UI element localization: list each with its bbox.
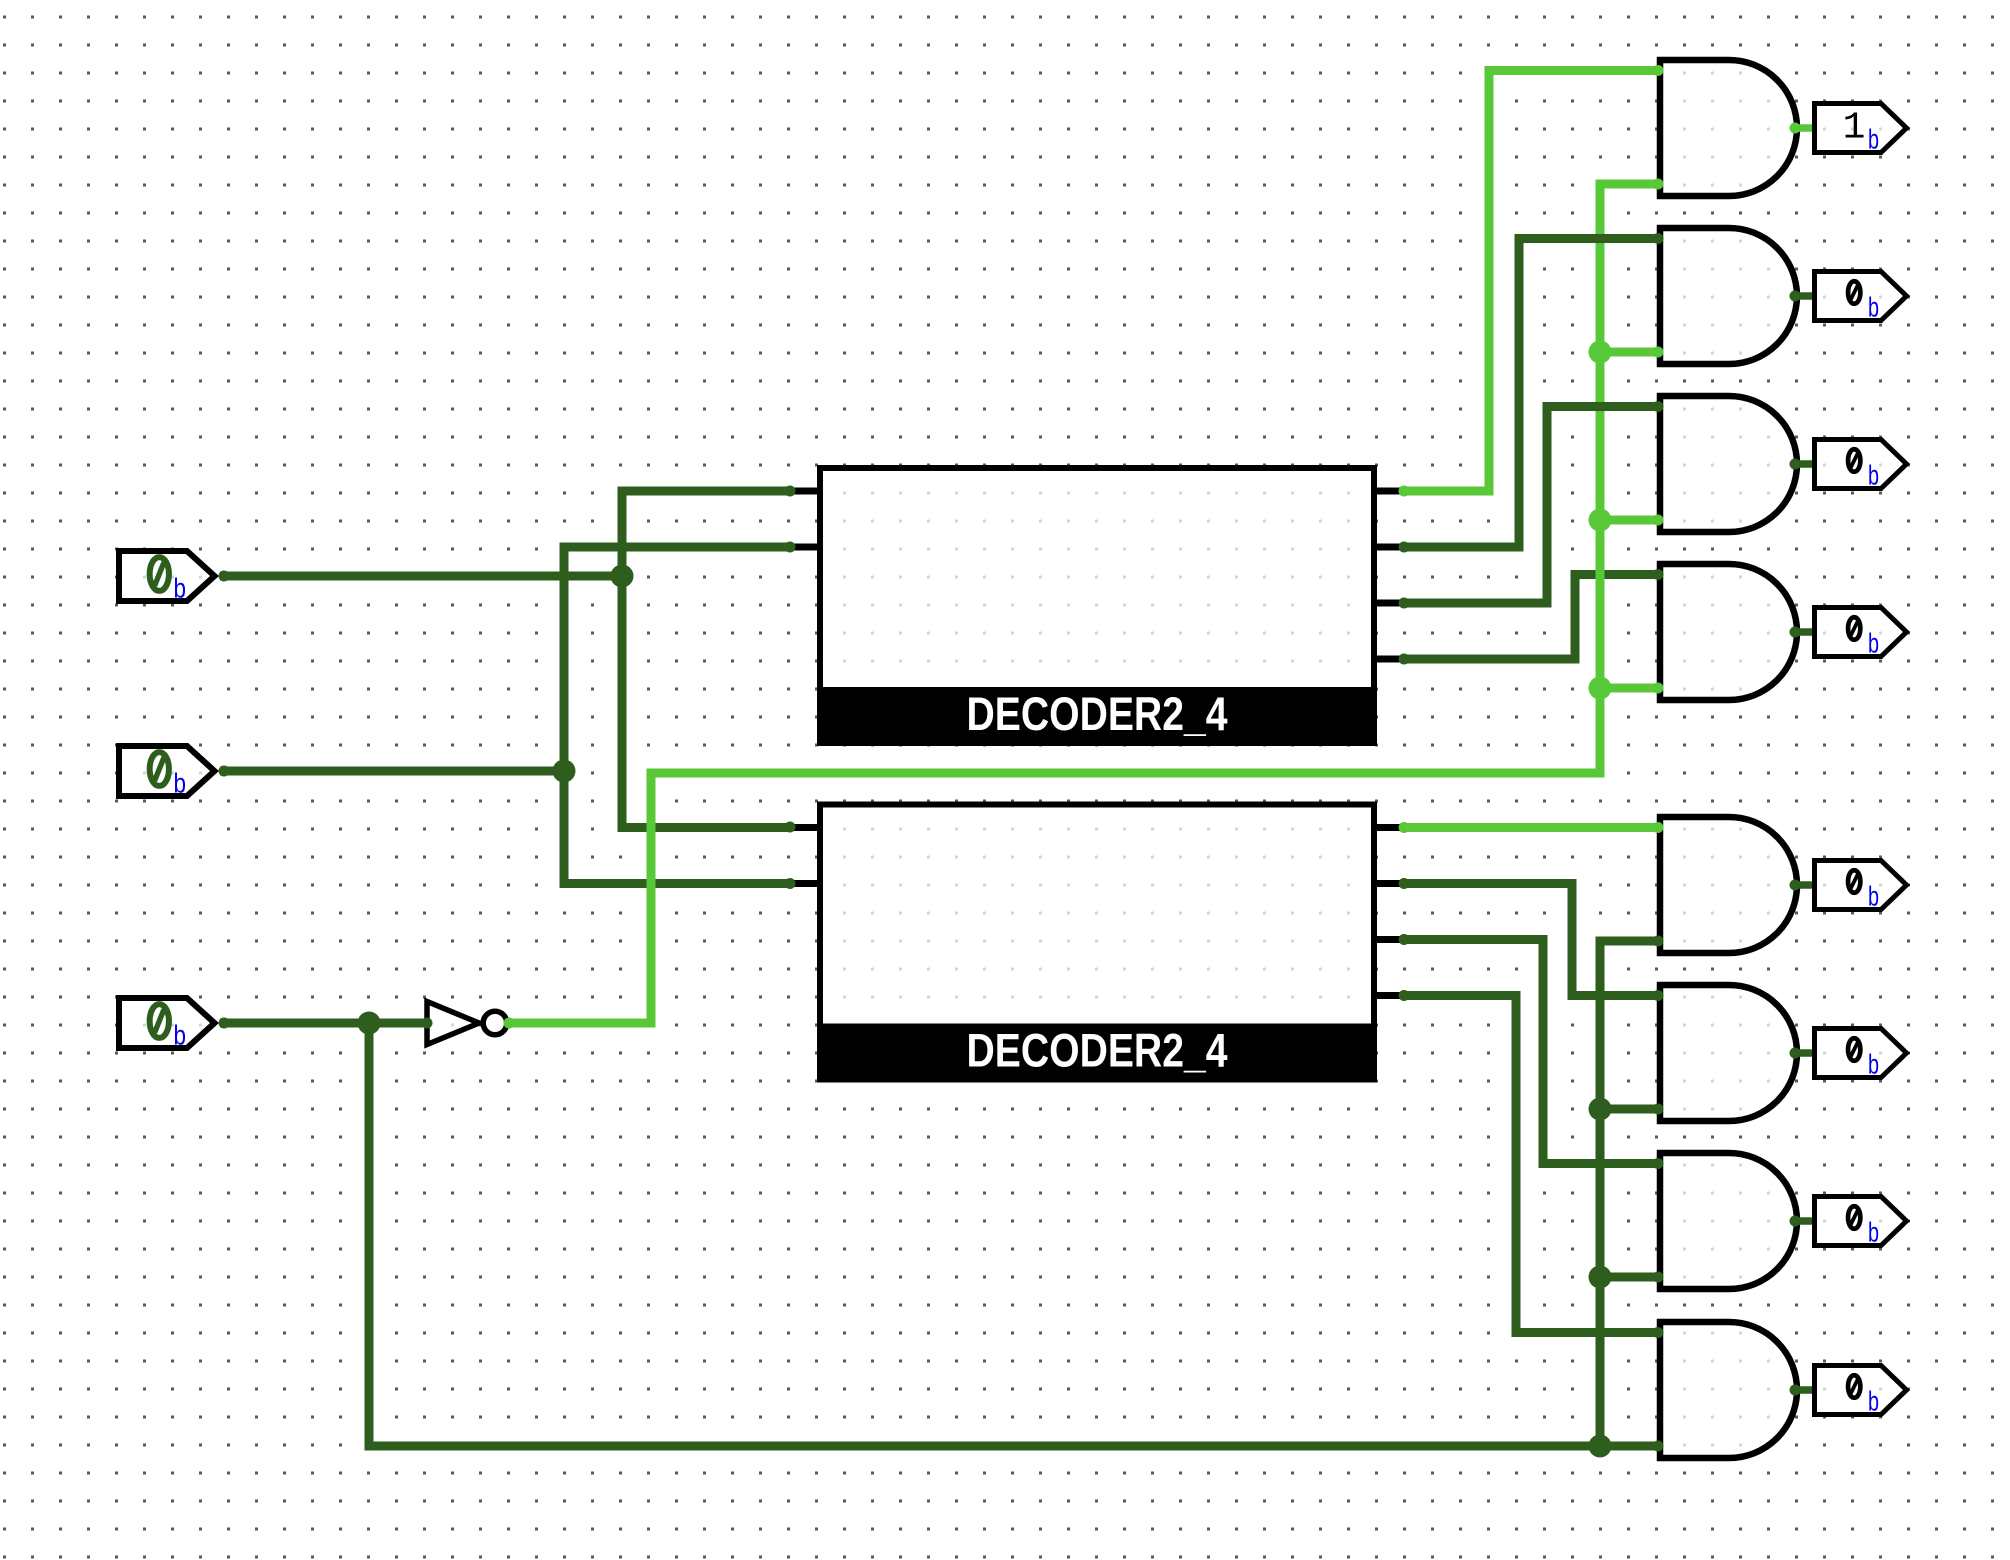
output pin OUT6 value 0b [1815,1197,1907,1248]
wire: A2 stub to gate G6 lower input [1600,1105,1658,1114]
output pin OUT4 value 0b [1815,861,1907,912]
wire: U2 output O2 to gate G7 upper input [1404,940,1658,1164]
AND gate G7 [1660,1153,1797,1289]
node: NOT gate U3 output connection dot [504,1018,515,1029]
output pin OUT5 value 0b [1815,1029,1907,1080]
wire: enable stub to gate G3 lower input [1600,516,1658,525]
wire: gate G6 output stub [1797,1049,1814,1057]
svg-text:DECODER2_4: DECODER2_4 [967,687,1228,740]
node: G8 input 2 connection dot [1653,1441,1664,1452]
svg-text:b: b [1868,292,1879,323]
AND gate G1 [1660,60,1797,196]
svg-text:b: b [1868,124,1879,155]
node: U2 pin A1 connection dot [785,878,796,889]
node: junction A2 split to NOT gate [358,1012,381,1035]
AND gate G3 [1660,396,1797,532]
node: NOT gate U3 input connection dot [422,1018,433,1029]
output pin OUT1 value 0b [1815,272,1907,323]
wire: enable stub to gate G2 lower input [1600,348,1658,357]
wire: A2 stub to gate G7 lower input [1600,1273,1658,1282]
node: U1 pin O0 connection dot [1399,486,1410,497]
node: G3 input 2 connection dot [1653,515,1664,526]
wire: gate G2 output stub [1797,292,1814,300]
node: junction enable column at G3 [1589,509,1612,532]
node: junction A2 column at G7 [1589,1266,1612,1289]
svg-text:DECODER2_4: DECODER2_4 [967,1024,1228,1077]
svg-text:b: b [174,573,187,604]
node: junction A0 bus [611,565,634,588]
wire: U1 output O1 to gate G2 upper input [1404,239,1658,548]
node: G5 input 2 connection dot [1653,936,1664,947]
wire: U1 output O3 to gate G4 upper input [1404,575,1658,660]
wire: gate G5 output stub [1797,881,1814,889]
node: G3 output connection dot [1790,459,1801,470]
node: G4 output connection dot [1790,627,1801,638]
node: U2 pin O3 connection dot [1399,990,1410,1001]
wire: enable stub to gate G4 lower input [1600,684,1658,693]
input pin IN A0 value 0b [119,551,215,604]
svg-text:b: b [1868,881,1879,912]
output pin OUT0 value 1b [1815,104,1907,155]
wire: A2 column up to gate G5 lower input [1600,941,1658,1446]
wire: input A0 pin to junction [220,572,622,581]
AND gate G5 [1660,817,1797,953]
input pin IN A1 value 0b [119,746,215,799]
node: junction A2 column at G6 [1589,1098,1612,1121]
svg-text:1: 1 [1843,107,1866,150]
node: G4 input 1 connection dot [1653,569,1664,580]
output pin OUT2 value 0b [1815,440,1907,491]
svg-text:b: b [1868,460,1879,491]
wire: U1 output O2 to gate G3 upper input [1404,407,1658,604]
output pin OUT7 value 0b [1815,1366,1907,1417]
node: G2 input 1 connection dot [1653,233,1664,244]
node: input A2 pin tip connection dot [219,1018,230,1029]
wire: NOT gate output up and right, enable column for gates G1-G4 [509,184,1658,1023]
node: G3 input 1 connection dot [1653,401,1664,412]
node: input A0 pin tip connection dot [219,571,230,582]
node: G7 input 1 connection dot [1653,1158,1664,1169]
node: G5 output connection dot [1790,880,1801,891]
node: G6 input 2 connection dot [1653,1104,1664,1115]
node: U2 pin A0 connection dot [785,822,796,833]
node: G6 input 1 connection dot [1653,990,1664,1001]
node: junction enable column at G2 [1589,341,1612,364]
wire: gate G1 output stub [1797,124,1814,132]
node: G1 input 1 connection dot [1653,65,1664,76]
node: G8 output connection dot [1790,1385,1801,1396]
wire: U2 output O0 to gate G5 upper input [1404,823,1658,832]
node: G7 output connection dot [1790,1216,1801,1227]
node: U1 pin A1 connection dot [785,542,796,553]
wire: gate G8 output stub [1797,1386,1814,1394]
node: G1 output connection dot [1790,123,1801,134]
AND gate G2 [1660,228,1797,364]
AND gate G4 [1660,564,1797,700]
node: junction A2 column at G8 [1589,1435,1612,1458]
node: G5 input 1 connection dot [1653,822,1664,833]
wire: gate G4 output stub [1797,628,1814,636]
svg-text:b: b [1868,1049,1879,1080]
wire: U2 output O3 to gate G8 upper input [1404,996,1658,1333]
svg-text:b: b [1868,1217,1879,1248]
AND gate G6 [1660,985,1797,1121]
output pin OUT3 value 0b [1815,608,1907,659]
wire: U1 output O0 to gate G1 upper input [1404,71,1658,492]
wire: crossing segment O2-G3 over enable column [1547,402,1658,411]
node: U2 pin O0 connection dot [1399,822,1410,833]
node: G7 input 2 connection dot [1653,1272,1664,1283]
node: junction A1 bus [553,760,576,783]
AND gate G8 [1660,1322,1797,1458]
node: U1 pin O1 connection dot [1399,542,1410,553]
wire: A0 vertical bus to decoder U1 pin A0 and decoder U2 pin A0 [622,491,790,828]
node: G1 input 2 connection dot [1653,179,1664,190]
wire: crossing segment O1-G2 over enable column [1519,234,1658,243]
node: U2 pin O1 connection dot [1399,878,1410,889]
node: G2 input 2 connection dot [1653,347,1664,358]
node: U1 pin O2 connection dot [1399,598,1410,609]
input pin IN A2 value 0b [119,998,215,1051]
node: U1 pin A0 connection dot [785,486,796,497]
svg-text:b: b [174,768,187,799]
inverter U3 (NOT gate) [427,1002,507,1045]
wire: U2 output O1 to gate G6 upper input [1404,884,1658,996]
node: G6 output connection dot [1790,1048,1801,1059]
wire: input A2 pin to NOT gate U3 input [220,1019,427,1028]
node: G2 output connection dot [1790,291,1801,302]
svg-text:b: b [1868,1386,1879,1417]
decoder U2 DECODER2_4 [790,805,1404,1083]
svg-text:b: b [174,1020,187,1051]
node: U1 pin O3 connection dot [1399,654,1410,665]
wire: A1 vertical bus to decoder U1 pin A1 and decoder U2 pin A1 [564,547,790,884]
node: G4 input 2 connection dot [1653,683,1664,694]
wire: gate G7 output stub [1797,1217,1814,1225]
node: G8 input 1 connection dot [1653,1327,1664,1338]
node: junction enable column at G4 [1589,677,1612,700]
wire: gate G3 output stub [1797,460,1814,468]
wire: input A1 pin to junction [220,767,564,776]
decoder U1 DECODER2_4 [790,468,1404,746]
node: input A1 pin tip connection dot [219,766,230,777]
svg-text:b: b [1868,628,1879,659]
wire: A2 long run down and right to AND-gate column [369,1023,1658,1446]
node: U2 pin O2 connection dot [1399,934,1410,945]
